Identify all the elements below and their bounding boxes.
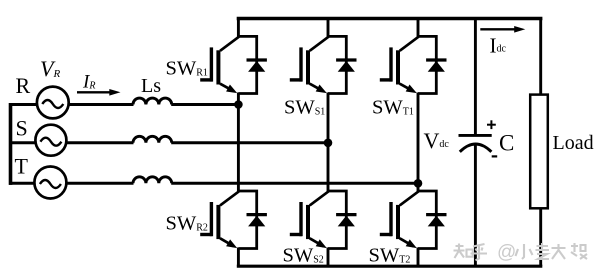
capacitor C — [459, 135, 492, 151]
svg-text:Load: Load — [553, 132, 594, 154]
wire leg T: upper emitter through phase node to lower collector — [417, 93, 420, 193]
wire R phase: source to inductor — [68, 103, 134, 106]
wire T phase: source to inductor — [65, 182, 133, 185]
wire R phase: bus to source — [9, 103, 38, 106]
svg-text:T: T — [15, 154, 29, 179]
svg-text:Ls: Ls — [141, 75, 161, 97]
left neutral bus — [9, 103, 13, 185]
wire capacitor branch lower — [474, 146, 477, 267]
ac source VT — [34, 167, 66, 199]
diode DS2 branch — [328, 191, 357, 249]
label SWS1 — [284, 97, 325, 119]
inductor Ls R phase — [133, 98, 172, 104]
label Idc — [490, 34, 507, 58]
diode DS1 branch — [328, 36, 357, 93]
label SWT2 — [369, 245, 411, 267]
svg-text:C: C — [499, 131, 514, 156]
plus sign — [487, 120, 496, 129]
wire leg T: top rail to upper collector — [417, 18, 420, 38]
label T — [15, 154, 29, 179]
inductor Ls T phase — [133, 177, 172, 183]
wire capacitor branch upper — [474, 19, 477, 136]
wire T phase: bus to source — [9, 182, 35, 185]
wire leg S: top rail to upper collector — [327, 18, 330, 38]
transistor SWS2 (IGBT) — [290, 191, 329, 248]
current arrow IR — [77, 89, 121, 96]
node R (phase connection) — [234, 100, 243, 109]
label SWS2 — [283, 245, 324, 267]
label IR — [82, 72, 95, 93]
label Vdc — [424, 128, 450, 153]
wire load branch lower — [539, 208, 542, 267]
wire S phase: source to inductor — [65, 141, 133, 144]
label SWR1 — [166, 58, 208, 80]
diode DT1 branch — [418, 36, 447, 93]
load resistor box — [530, 95, 548, 209]
label C — [499, 131, 514, 156]
label Ls — [141, 75, 161, 97]
node S (phase connection) — [324, 139, 333, 148]
current arrow Idc — [480, 26, 525, 33]
ac source VS — [35, 125, 66, 156]
wire S phase: inductor to bridge leg — [171, 141, 329, 144]
ac source VR — [37, 87, 69, 119]
diode DT2 branch — [418, 191, 447, 249]
wire leg S: lower emitter to bottom rail — [327, 248, 330, 267]
diode DR1 branch — [238, 36, 267, 93]
node T (phase connection) — [414, 179, 423, 188]
label SWT1 — [372, 97, 414, 119]
label SWR2 — [166, 213, 208, 235]
wire S phase: bus to source — [9, 141, 37, 144]
label R — [16, 73, 31, 98]
bottom DC rail — [237, 265, 543, 268]
wire leg R: upper emitter through phase node to lower collector — [237, 93, 240, 193]
wire leg T: lower emitter to bottom rail — [417, 248, 420, 267]
top DC rail — [237, 17, 543, 21]
label S — [16, 116, 28, 141]
watermark zhihu @xiaomaidashu — [454, 242, 588, 263]
transistor SWT1 (IGBT) — [380, 37, 419, 93]
transistor SWT2 (IGBT) — [380, 191, 419, 248]
label VR — [40, 56, 60, 81]
transistor SWS1 (IGBT) — [290, 37, 329, 93]
transistor SWR2 (IGBT) — [200, 191, 239, 248]
wire T phase: inductor to bridge leg — [171, 182, 419, 185]
minus sign — [492, 155, 498, 157]
wire leg R: lower emitter to bottom rail — [237, 248, 240, 267]
label Load — [553, 132, 594, 154]
wire R phase: inductor to bridge leg — [171, 103, 240, 106]
inductor Ls S phase — [133, 136, 172, 142]
transistor SWR1 (IGBT) — [200, 37, 239, 93]
svg-text:@: @ — [497, 242, 516, 263]
wire leg S: upper emitter through phase node to lower collector — [327, 93, 330, 193]
wire leg R: top rail to upper collector — [237, 18, 240, 38]
svg-text:R: R — [16, 73, 31, 98]
diode DR2 branch — [238, 191, 267, 249]
svg-text:S: S — [16, 116, 28, 141]
wire load branch upper — [539, 19, 542, 96]
